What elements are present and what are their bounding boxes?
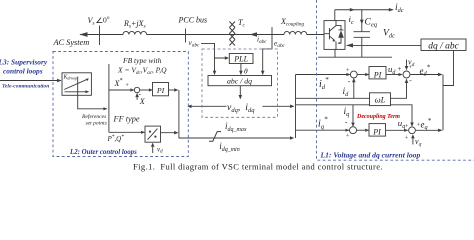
wire d1 to PI <box>357 73 369 76</box>
label Ceq <box>365 18 378 29</box>
label i_dc <box>395 3 404 14</box>
inductor Rs+jXs <box>123 31 147 34</box>
wire v_abc feed <box>201 43 229 75</box>
label e_d* <box>420 65 431 78</box>
node e_abc tick <box>271 27 273 42</box>
wire droop output to reference bus <box>78 95 108 110</box>
label L2 outer control loops <box>69 149 137 156</box>
summing junction FB <box>134 87 139 92</box>
label X = Vdc Vac PQ <box>117 66 167 76</box>
label Xcoupling <box>280 17 304 28</box>
label theta <box>244 67 248 76</box>
label abc/dq <box>227 77 252 86</box>
svg-text:L2: Outer control loops: L2: Outer control loops <box>69 149 137 156</box>
svg-text:set points: set points <box>86 121 107 127</box>
label e_q* <box>421 118 432 131</box>
wire i_d* reference <box>296 73 351 76</box>
svg-text:FB type with: FB type with <box>122 56 162 65</box>
svg-text:+: + <box>346 133 350 140</box>
svg-text:PI: PI <box>156 86 165 95</box>
wire X feedback stub <box>135 93 139 100</box>
svg-text:AC System: AC System <box>53 38 90 47</box>
PLL labels <box>227 55 263 114</box>
label P* Q* <box>107 134 125 143</box>
wire v_q stub <box>411 134 415 144</box>
label v_d <box>408 57 415 71</box>
label v_abc <box>189 38 201 49</box>
label plus q2 bottom <box>405 134 409 141</box>
label Vs angle 0 <box>88 16 111 27</box>
label X* <box>114 78 123 88</box>
svg-text:ωL: ωL <box>375 95 386 105</box>
label plus d2 <box>398 65 402 73</box>
label i_q* <box>318 116 328 131</box>
label PCC bus <box>178 16 208 25</box>
L2 dashed box <box>53 52 188 157</box>
wire FB to PI <box>140 88 153 91</box>
arrowhead to AC system <box>79 32 87 37</box>
label L1 voltage and dq current loop <box>320 151 421 160</box>
svg-text:Fig.1. Full diagram of VSC te: Fig.1. Full diagram of VSC terminal mode… <box>133 162 383 172</box>
L2 outer loop <box>0 64 294 153</box>
wire dq output <box>239 86 243 100</box>
label PI d <box>373 71 382 80</box>
svg-text:Decoupling Term: Decoupling Term <box>356 114 400 120</box>
label plus q2 top right <box>417 122 421 129</box>
label PLL <box>233 55 248 64</box>
label Vdc <box>383 29 395 40</box>
svg-text:abc / dq: abc / dq <box>227 77 252 86</box>
node Vs bus <box>99 26 101 46</box>
label plus q1 <box>346 133 350 140</box>
svg-text:PCC bus: PCC bus <box>178 16 208 25</box>
svg-text:PI: PI <box>373 71 382 80</box>
capacitor Ceq <box>354 10 371 57</box>
label vd <box>157 146 163 155</box>
label i_dq_max <box>225 121 247 133</box>
wire PI to collect bus <box>169 88 179 92</box>
wire DC top rail <box>335 10 393 21</box>
wire main AC line <box>80 34 324 36</box>
svg-text:FF type: FF type <box>113 114 140 123</box>
svg-text:Rs+jXs: Rs+jXs <box>123 19 146 30</box>
label i_c <box>349 14 354 26</box>
label PI q <box>372 128 381 137</box>
wire omega-L to q2 <box>391 105 414 127</box>
wire limited reference output <box>179 136 294 140</box>
svg-text:+: + <box>398 65 402 73</box>
transformer Tc <box>229 22 235 46</box>
label minus FB <box>139 90 142 98</box>
block K_droop <box>62 73 91 96</box>
label AC System <box>53 38 90 47</box>
label i_d* <box>319 76 329 91</box>
label L3 supervisory <box>0 58 48 76</box>
node reference bus L2 <box>108 64 110 132</box>
wire v_dq i_dq <box>187 105 294 109</box>
svg-text:PLL: PLL <box>233 55 248 64</box>
label i_dq_min <box>219 141 240 153</box>
wire P*Q* to divider <box>109 131 145 134</box>
label i_q feedback <box>344 107 350 118</box>
L2 labels <box>0 56 420 160</box>
svg-text:+: + <box>346 67 350 74</box>
summing junction q1 <box>350 127 357 134</box>
label i_abc <box>257 35 267 46</box>
arrowhead i_abc on wire <box>250 32 258 37</box>
svg-text:L3: Supervisory: L3: Supervisory <box>0 58 48 67</box>
wire X* reference <box>109 88 134 91</box>
label omega L <box>375 95 386 105</box>
dashed boxes <box>53 0 474 160</box>
label Tc <box>238 18 245 29</box>
wire dq/abc input from e_dq <box>443 51 454 131</box>
wire i_q feedback <box>296 105 370 127</box>
block abc/dq <box>208 76 272 86</box>
wire i_d feedback <box>296 78 370 98</box>
block PI d <box>369 67 386 79</box>
label FF type <box>113 114 140 123</box>
label plus FB <box>125 82 129 89</box>
wire omega-L to d2 <box>391 79 409 99</box>
caption <box>133 162 383 172</box>
label e_abc <box>274 39 286 50</box>
wire PI to d2 <box>386 73 403 76</box>
block PLL <box>229 54 253 64</box>
svg-text:+: + <box>405 134 409 141</box>
arrowhead mid rail <box>350 8 355 12</box>
svg-text:X = Vdc,Vac, P,Q: X = Vdc,Vac, P,Q <box>117 66 167 76</box>
wire v_d stub <box>405 60 409 71</box>
wire PI to q2 <box>386 129 409 132</box>
label X feedback <box>139 97 146 106</box>
inductor Xcoupling <box>284 31 307 34</box>
diode inside converter <box>336 26 344 44</box>
svg-text:Kdroop: Kdroop <box>63 75 78 81</box>
block dq/abc <box>421 39 466 51</box>
svg-text:PI: PI <box>372 128 381 137</box>
svg-text:Tele-communication: Tele-communication <box>2 84 49 90</box>
wire e_d* output <box>411 73 443 76</box>
L1 text labels <box>318 57 432 147</box>
converter box <box>324 21 345 50</box>
svg-text:θ: θ <box>244 67 248 76</box>
summing junction d1 <box>350 71 357 78</box>
svg-text:+: + <box>405 123 409 130</box>
svg-text:References: References <box>81 113 106 120</box>
summing junction d2 <box>403 71 410 78</box>
arrowhead i_dc <box>389 8 394 12</box>
label FB type with <box>122 56 162 65</box>
label Rs+jXs <box>123 19 146 30</box>
label PI outer <box>156 86 165 95</box>
PLL measurement block <box>187 42 294 108</box>
wire i_q* reference <box>296 129 350 132</box>
block PI outer <box>153 83 169 96</box>
svg-text:L1: Voltage and dq current loo: L1: Voltage and dq current loop <box>320 151 421 160</box>
wire theta <box>239 64 243 76</box>
node reference bus vertical <box>295 75 297 139</box>
label dq/abc <box>428 42 459 52</box>
label references set points <box>81 113 107 127</box>
label minus d1 <box>348 76 351 85</box>
summing junction q2 <box>409 127 416 134</box>
label i_d feedback <box>343 87 350 98</box>
svg-text:+: + <box>125 82 129 89</box>
svg-text:dq / abc: dq / abc <box>428 42 459 52</box>
label u_q <box>398 118 405 130</box>
L1 current loop <box>296 60 443 145</box>
wire vd stub <box>151 143 155 153</box>
svg-text:control loops: control loops <box>3 67 43 76</box>
label minus q1 <box>345 117 348 126</box>
node PCC bus tick <box>185 29 187 43</box>
saturation limiter <box>209 132 221 142</box>
node collect bus <box>178 90 180 138</box>
block feed-forward divider <box>145 126 161 142</box>
wire divider to collect bus <box>161 131 179 135</box>
wire DC bottom rail <box>318 49 392 57</box>
label telecommunication <box>2 84 49 90</box>
label K_droop <box>63 75 78 81</box>
wire e_abc i_abc feed <box>261 42 272 75</box>
text labels top circuit <box>53 3 460 52</box>
L1 dashed boundary <box>317 0 474 160</box>
wire e_q* output <box>416 129 443 132</box>
label minus d2 <box>409 75 412 84</box>
wire telecom input <box>0 79 62 83</box>
label u_d <box>388 64 396 76</box>
PLL dashed box <box>202 49 277 117</box>
label v_q <box>415 137 422 148</box>
block PI q <box>369 124 386 137</box>
transistor IGBT inside converter <box>324 21 336 50</box>
block omega-L decoupling <box>370 93 391 106</box>
label plus d1 <box>346 67 350 74</box>
label plus q2 left <box>405 123 409 130</box>
label Decoupling Term <box>356 114 400 120</box>
wire q1 to PI <box>357 129 370 132</box>
wire gate signal from dq/abc to converter <box>346 43 421 47</box>
label v_dq i_dq <box>227 100 263 115</box>
